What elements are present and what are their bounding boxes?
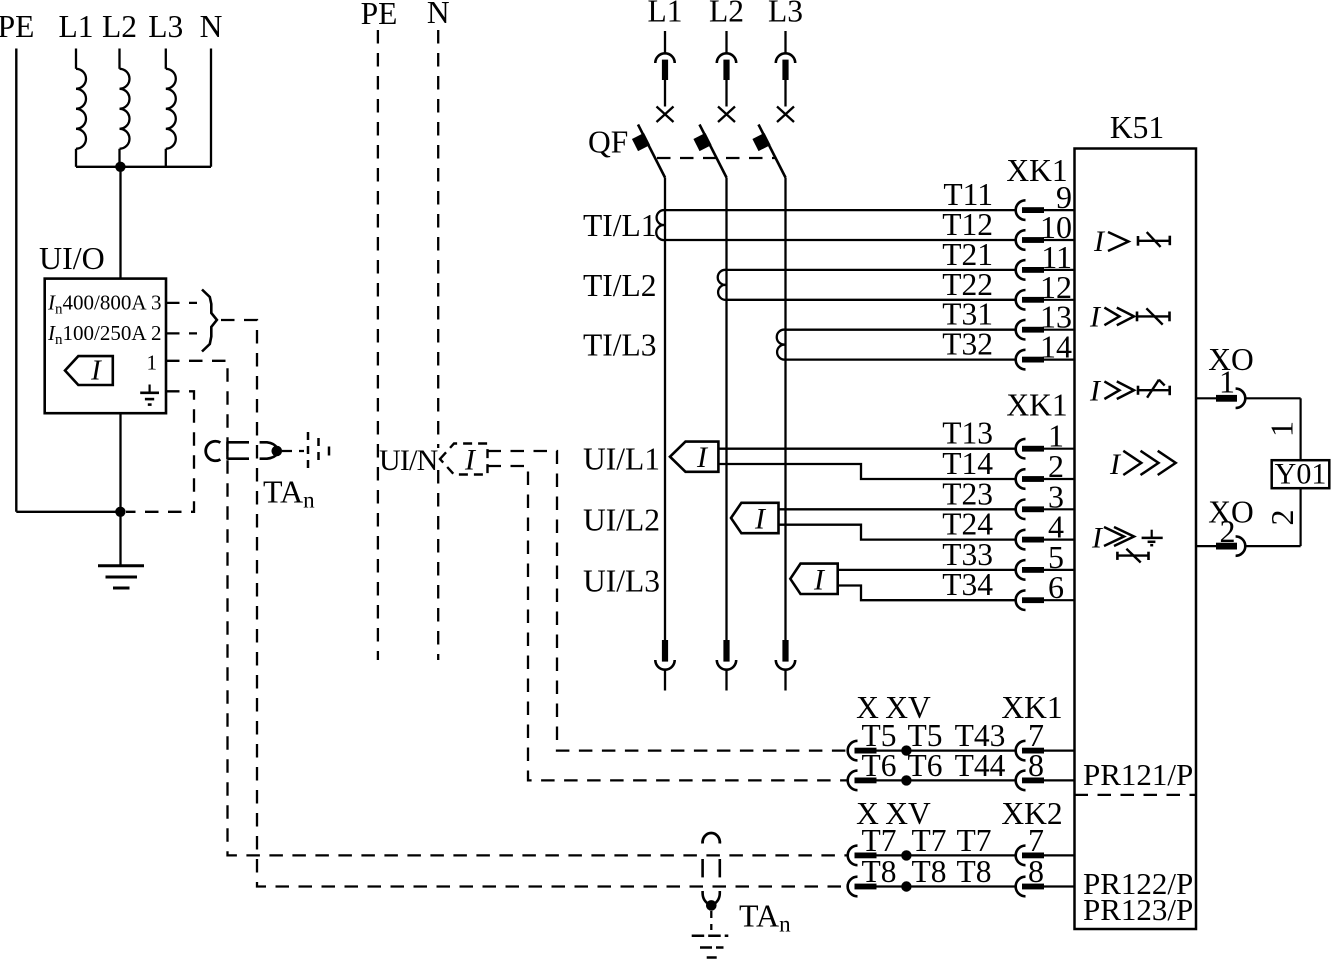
- current transformer TAn (lower toroid): [703, 833, 720, 844]
- wire L3 stub: [165, 49, 167, 69]
- svg-text:In100/250A: In100/250A: [47, 321, 147, 348]
- terminal X T6: [848, 771, 858, 791]
- wire TAn to earth (dashed): [710, 911, 712, 930]
- svg-text:UI/O: UI/O: [39, 240, 105, 276]
- svg-text:T7: T7: [862, 823, 897, 858]
- terminal X T7: [848, 846, 858, 866]
- coil L3: [166, 69, 176, 149]
- drawout terminal bottom L1: [662, 640, 668, 662]
- svg-text:1: 1: [147, 350, 158, 374]
- svg-text:UI/L2: UI/L2: [583, 503, 660, 538]
- wire pin 2 (dashed): [166, 332, 197, 334]
- breaker QF blade pole L2: [700, 125, 727, 178]
- wire star-point bus: [76, 166, 211, 168]
- svg-text:N: N: [427, 0, 450, 30]
- breaker linkage (dashed): [657, 157, 776, 159]
- wire CT secondary s2: [727, 299, 1015, 301]
- svg-text:PR123/P: PR123/P: [1083, 892, 1193, 927]
- wire star point to UI/O: [119, 167, 121, 279]
- divider PR121/P (dashed): [1075, 794, 1197, 796]
- wire N stub: [210, 49, 212, 167]
- breaker contact X pole L2: [718, 107, 735, 123]
- wire phase L2 vertical: [725, 178, 727, 641]
- voltage flag UI/L1: [670, 442, 718, 472]
- svg-text:UI/L3: UI/L3: [583, 564, 660, 599]
- svg-text:Y01: Y01: [1275, 458, 1327, 491]
- svg-text:PR121/P: PR121/P: [1083, 757, 1193, 792]
- svg-text:K51: K51: [1110, 110, 1164, 145]
- wire below coil L2: [118, 149, 120, 167]
- svg-text:L3: L3: [768, 0, 803, 29]
- svg-text:T7: T7: [912, 823, 947, 858]
- wire T6 row: [877, 779, 1015, 781]
- svg-text:8: 8: [1028, 853, 1044, 889]
- wire UI/N to T5 (dashed): [488, 451, 847, 751]
- wire Y01 circuit (1): [1299, 398, 1301, 460]
- wire L1 stub: [75, 49, 77, 69]
- breaker QF blade pole L3: [759, 125, 786, 178]
- svg-text:2: 2: [1264, 510, 1300, 526]
- drawout terminal top L2: [725, 31, 727, 54]
- wire UI/L2 s1: [779, 508, 1015, 510]
- coil L1: [76, 69, 86, 149]
- svg-text:T32: T32: [942, 327, 993, 362]
- svg-text:6: 6: [1048, 569, 1064, 605]
- current transformer TI/L1: [656, 210, 665, 240]
- svg-text:T34: T34: [942, 567, 993, 602]
- breaker contact X pole L3: [777, 107, 794, 123]
- svg-text:TI/L3: TI/L3: [583, 328, 656, 363]
- voltage flag UI/N (dashed): [440, 444, 488, 475]
- terminal XK2 pin 7: [1016, 846, 1026, 866]
- terminal XK1 pin 8: [1016, 771, 1026, 791]
- wire L2 stub: [118, 49, 120, 69]
- svg-text:T44: T44: [955, 748, 1006, 783]
- svg-text:T8: T8: [912, 854, 947, 889]
- current flag symbol in UI/O: [65, 356, 113, 385]
- ground pin symbol inside UI/O: [149, 385, 151, 393]
- svg-text:UI/L1: UI/L1: [583, 441, 660, 476]
- junction XV T5: [901, 745, 911, 755]
- svg-text:N: N: [200, 9, 223, 44]
- wire T8 row: [877, 885, 1015, 887]
- current transformer TAn (upper toroid): [206, 441, 221, 460]
- drawout terminal bottom L3: [782, 640, 788, 662]
- wire UI/L1 s2 (with jog): [718, 464, 1014, 479]
- drawout terminal top L3: [784, 31, 786, 54]
- wire below coil L3: [165, 149, 167, 167]
- svg-text:L2: L2: [709, 0, 744, 29]
- wire PE to ground node: [16, 511, 120, 513]
- voltage flag UI/L2: [731, 503, 779, 533]
- breaker contact X pole L1: [657, 107, 674, 123]
- wire phase L1 vertical: [664, 178, 666, 641]
- svg-text:I: I: [90, 355, 102, 387]
- wire UI/N to T6 (dashed): [488, 466, 847, 780]
- svg-text:1: 1: [1264, 421, 1300, 437]
- svg-text:T7: T7: [957, 823, 992, 858]
- svg-text:8: 8: [1028, 747, 1044, 783]
- drawout terminal bottom L2: [723, 640, 729, 662]
- wire Y01 circuit (2): [1299, 488, 1301, 546]
- svg-text:T6: T6: [862, 748, 897, 783]
- wire pin 1 to T7 (dashed): [166, 361, 847, 856]
- junction XV T8: [901, 881, 911, 891]
- wire PE dashed column: [377, 30, 379, 660]
- ground (protective earth): [98, 564, 144, 567]
- breaker QF blade pole L1: [638, 125, 665, 178]
- svg-text:UI/N: UI/N: [379, 444, 438, 477]
- junction XV T6: [901, 775, 911, 785]
- trip unit input block UI/O: [45, 279, 166, 414]
- svg-text:PE: PE: [0, 9, 34, 44]
- svg-text:1: 1: [1219, 364, 1235, 400]
- wire T5 row: [877, 749, 1015, 751]
- wire below coil L1: [75, 149, 77, 167]
- junction ground node: [115, 507, 125, 517]
- brace joining pins 3 and 2: [202, 290, 217, 352]
- svg-text:In400/800A: In400/800A: [47, 291, 147, 318]
- svg-text:QF: QF: [588, 125, 628, 160]
- svg-text:TI/L2: TI/L2: [583, 268, 656, 303]
- svg-text:3: 3: [151, 291, 162, 315]
- svg-text:L1: L1: [59, 9, 94, 44]
- wire UI/O bottom to earth: [119, 413, 121, 566]
- svg-text:T6: T6: [908, 748, 943, 783]
- wire phase L3 vertical: [784, 178, 786, 641]
- shunt opening release Y01: [1272, 460, 1330, 488]
- terminal X T5: [848, 741, 858, 761]
- protection relay K51 box: [1075, 149, 1197, 930]
- voltage flag UI/L3: [790, 564, 837, 594]
- wire pin 3 (dashed): [166, 302, 197, 304]
- svg-text:PE: PE: [361, 0, 398, 31]
- terminal XK1 pin 7: [1016, 741, 1026, 761]
- wire UI/L3 s1: [838, 569, 1015, 571]
- wire UI/L3 s2 (with jog): [838, 586, 1015, 601]
- svg-text:T8: T8: [957, 854, 992, 889]
- current transformer TI/L3: [777, 330, 786, 360]
- wire N dashed column: [437, 30, 439, 448]
- wire UI/L2 s2 (with jog): [779, 525, 1015, 540]
- terminal XK2 pin 8: [1016, 877, 1026, 897]
- wire CT secondary s1: [786, 329, 1015, 331]
- wire T7 row: [877, 854, 1015, 856]
- svg-text:L2: L2: [102, 9, 137, 44]
- wire brace output to T8 (dashed): [221, 320, 847, 887]
- svg-text:2: 2: [151, 321, 162, 345]
- junction star point: [115, 162, 125, 172]
- wire CT secondary s1: [665, 209, 1015, 211]
- wire CT secondary s1: [727, 269, 1015, 271]
- ground (dashed, rotated) for TAn: [307, 432, 310, 470]
- ground (dashed) for lower TAn: [692, 935, 729, 938]
- svg-text:TI/L1: TI/L1: [583, 208, 656, 243]
- svg-text:T8: T8: [862, 854, 897, 889]
- wire ground pin to star ground (dashed): [126, 391, 194, 512]
- svg-text:14: 14: [1040, 329, 1072, 365]
- svg-text:L1: L1: [648, 0, 683, 29]
- coil L2: [120, 69, 130, 149]
- wire CT secondary s2: [665, 239, 1015, 241]
- svg-text:L3: L3: [148, 9, 183, 44]
- drawout terminal top L1: [664, 31, 666, 54]
- wire CT secondary s2: [786, 358, 1015, 360]
- wire UI/L1 s1: [718, 448, 1014, 450]
- wire PE vertical: [15, 49, 17, 512]
- current transformer TI/L2: [718, 270, 727, 300]
- junction XV T7: [901, 850, 911, 860]
- terminal X T8: [848, 877, 858, 897]
- wire TAn to earth (dashed): [282, 450, 304, 452]
